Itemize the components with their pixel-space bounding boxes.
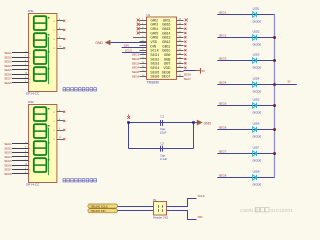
svg-text:d: d: [29, 66, 30, 68]
display DS2 pin seg8 + net label SEG8: [4, 172, 30, 176]
U1 pin 6: [140, 40, 147, 42]
U1 pin 25: [177, 31, 187, 34]
op-amp / IC U1 body TM1640: [147, 17, 177, 79]
svg-text:SCLK: SCLK: [125, 48, 132, 52]
svg-text:SCLK: SCLK: [198, 194, 205, 198]
svg-text:GND: GND: [204, 121, 212, 125]
svg-text:U1: U1: [147, 13, 151, 17]
svg-text:DIN: DIN: [198, 215, 203, 219]
display DS2 designator: [28, 100, 34, 104]
display DS2 common pin 8 with no-ERC: [54, 119, 66, 123]
display DS1 part name DPY4-CC: [26, 92, 40, 96]
display DS2 digit 4: [34, 158, 50, 172]
U1 pin 18: [177, 62, 187, 65]
svg-text:g: g: [29, 78, 30, 80]
display DS1 pin seg6 + net label SEG6: [4, 72, 30, 76]
svg-text:Header 2X2: Header 2X2: [153, 216, 168, 220]
svg-text:LED8: LED8: [253, 169, 260, 173]
svg-text:LED1: LED1: [253, 6, 260, 10]
display DS2 digit 3: [34, 141, 50, 155]
svg-text:b: b: [29, 148, 30, 150]
wire cap loop left vertical: [128, 123, 130, 149]
U1 pin 20: [177, 53, 187, 56]
U1 pin 3 with no-ERC X: [137, 27, 147, 30]
display DS1 digit 1: [34, 16, 50, 30]
U1 pin 21: [177, 49, 187, 52]
svg-text:5V: 5V: [202, 69, 206, 73]
U1 pin 2 with no-ERC X: [137, 23, 147, 26]
svg-text:e: e: [29, 161, 30, 163]
LED5 diode with wire and net label SEG5: [217, 97, 274, 114]
display DS2 pin seg3 + net label SEG3: [4, 151, 30, 155]
svg-text:LED7: LED7: [253, 145, 260, 149]
LED bus vertical wire: [274, 15, 276, 178]
svg-text:DS2: DS2: [28, 100, 34, 104]
svg-text:DIODE: DIODE: [253, 183, 262, 187]
LED8 diode with wire and net label SEG8: [217, 169, 274, 186]
svg-text:LED4: LED4: [253, 76, 260, 80]
svg-text:DIODE: DIODE: [253, 20, 262, 24]
svg-text:C2: C2: [160, 141, 164, 145]
U1 pin 1 with no-ERC X: [137, 19, 147, 22]
capacitor C2: [160, 141, 167, 161]
LED1 diode with wire and net label SEG1: [217, 6, 274, 23]
svg-text:01010001: 01010001: [271, 208, 294, 213]
LED2 diode with wire and net label SEG2: [217, 29, 274, 46]
ground power port GND (left of U1): [95, 40, 146, 45]
svg-text:DIN: DIN: [124, 44, 129, 48]
svg-text:5V: 5V: [288, 80, 291, 84]
junction LED4 on bus: [273, 83, 276, 86]
U1 pin 9 + net label SEG1: [132, 53, 147, 57]
svg-text:h: h: [29, 83, 30, 85]
header P1 body: [154, 202, 167, 216]
watermark CSDN: [240, 208, 293, 214]
junction LED6 on bus: [273, 128, 276, 131]
wire cap loop bottom: [129, 148, 194, 150]
U1 inner pin names: [150, 18, 171, 78]
display DS2 common pin 12 with no-ERC: [54, 137, 66, 141]
net label SEG8 (U1 right): [184, 72, 191, 76]
svg-text:10uF: 10uF: [160, 131, 167, 135]
U1 pin 15: [177, 75, 184, 77]
display DS2 digit 1: [34, 107, 50, 121]
display DS1 colon bar: [47, 37, 49, 84]
svg-text:DIODE: DIODE: [253, 43, 262, 47]
U1 pin 8: [140, 49, 147, 51]
svg-text:DIODE: DIODE: [253, 159, 262, 163]
svg-text:SEG8: SEG8: [4, 172, 12, 176]
LED7 diode with wire and net label SEG7: [217, 145, 274, 162]
display DS1 digit 3: [34, 50, 50, 64]
U1 pin 5 stub: [133, 36, 147, 38]
display DS2 chinese note: [63, 179, 97, 182]
wire SCLK to U1 pin 8: [122, 48, 147, 52]
display DS2 common pin 9 with no-ERC: [54, 128, 66, 132]
svg-text:SEG6: SEG6: [219, 126, 227, 130]
svg-text:TM1640 SCLK: TM1640 SCLK: [90, 205, 108, 209]
svg-text:SEG7: SEG7: [184, 77, 191, 81]
svg-text:DIODE: DIODE: [253, 111, 262, 115]
wire header to SCLK label: [167, 194, 206, 207]
U1 pin 22: [177, 44, 187, 47]
display DS2 pin seg2 + net label SEG2: [4, 146, 30, 150]
port TM1640_DIN: [88, 209, 118, 213]
U1 pin 4 with no-ERC X: [137, 31, 147, 34]
display DS1 common pin 8 with no-ERC: [54, 28, 66, 32]
svg-text:LED3: LED3: [253, 52, 260, 56]
svg-text:c: c: [29, 152, 30, 154]
svg-text:0.1uF: 0.1uF: [160, 157, 167, 161]
svg-text:SEG5: SEG5: [219, 102, 227, 106]
display DS2 digit 2: [34, 124, 50, 138]
junction LED2 on bus: [273, 36, 276, 39]
svg-text:DPY4-CC: DPY4-CC: [26, 92, 40, 96]
svg-text:SEG6: SEG6: [150, 75, 159, 79]
svg-text:SEG2: SEG2: [219, 34, 227, 38]
junction node left: [127, 121, 130, 124]
U1 pin 12 + net label SEG4: [132, 66, 147, 70]
svg-text:SEG1: SEG1: [219, 11, 227, 15]
display DS2 colon bar: [47, 128, 49, 175]
svg-text:SEG8: SEG8: [184, 72, 191, 76]
svg-text:SEG4: SEG4: [219, 81, 227, 85]
display DS1 common pin 12 with no-ERC: [54, 46, 66, 50]
display DS2 pin seg7 + net label SEG7: [4, 168, 30, 172]
port TM1640_SCLK: [88, 204, 118, 209]
svg-text:SEG7: SEG7: [162, 75, 171, 79]
junction node right: [192, 121, 195, 124]
display DS1 pin seg4 + net label SEG4: [4, 64, 30, 68]
U1 pin 13 + net label SEG5: [132, 70, 147, 74]
display DS1 pin seg7 + net label SEG7: [4, 77, 30, 81]
display DS1 pin seg3 + net label SEG3: [4, 60, 30, 64]
U1 pin 19: [177, 57, 187, 60]
display DS2 body: [29, 105, 57, 183]
display DS1 digit 4: [34, 67, 50, 81]
svg-text:CSDN @: CSDN @: [240, 208, 259, 213]
LED6 diode with wire and net label SEG6: [217, 121, 274, 138]
svg-text:SEG6: SEG6: [132, 74, 140, 78]
svg-text:LED2: LED2: [253, 29, 260, 33]
svg-text:GND: GND: [95, 41, 103, 45]
wire DIN to U1 pin 7: [122, 44, 147, 48]
header P1 part name: [153, 216, 168, 220]
svg-text:b: b: [29, 57, 30, 59]
junction LED3 on bus: [273, 59, 276, 62]
svg-text:DIODE: DIODE: [253, 66, 262, 70]
display DS1 chinese note: [63, 88, 97, 91]
display DS1 digit 2: [34, 33, 50, 47]
header P1 pin marks: [159, 205, 163, 211]
U1 pin 16: [177, 70, 184, 72]
display DS1 pin seg8 + net label SEG8: [4, 81, 30, 85]
display DS2 pin seg1 + net label SEG1: [4, 142, 31, 146]
capacitor C1: [160, 115, 167, 135]
U1 pin 14 + net label SEG6: [132, 74, 147, 78]
svg-text:SEG3: SEG3: [219, 57, 227, 61]
svg-text:d: d: [29, 157, 30, 159]
U1 pin 7: [140, 44, 147, 46]
U1 pin 17: [177, 66, 187, 69]
U1 pin 11 + net label SEG3: [132, 61, 147, 65]
header P1 designator: [153, 198, 157, 202]
wire cap loop top: [129, 122, 194, 124]
svg-text:e: e: [29, 70, 30, 72]
display DS2 common pin 6 with no-ERC: [54, 110, 66, 114]
U1 pin 27: [177, 23, 187, 26]
svg-text:SEG8: SEG8: [219, 174, 227, 178]
U1 pin 28: [177, 19, 188, 22]
svg-text:DPY4-CC: DPY4-CC: [26, 183, 40, 187]
junction LED5 on bus: [273, 104, 276, 107]
display DS1 pin seg1 + net label SEG1: [4, 51, 31, 55]
wire port DIN to header P1: [118, 210, 154, 212]
wire bus to 5V stub (LED4 row): [275, 80, 297, 85]
svg-text:TM1640: TM1640: [147, 80, 160, 84]
svg-text:C1: C1: [160, 115, 164, 119]
U1 pin 24: [177, 36, 187, 39]
display DS1 common pin 6 with no-ERC: [54, 19, 66, 23]
display DS1 body: [29, 14, 57, 92]
U1 pin 10 + net label SEG2: [132, 57, 147, 61]
power port 5V on U1 right pin: [184, 68, 206, 74]
svg-text:c: c: [29, 61, 30, 63]
svg-text:DS1: DS1: [28, 9, 34, 13]
svg-text:DIODE: DIODE: [253, 90, 262, 94]
svg-text:g: g: [29, 169, 30, 171]
svg-text:TM1640 DIN: TM1640 DIN: [90, 209, 105, 213]
display DS2 part name DPY4-CC: [26, 183, 40, 187]
svg-text:P1: P1: [153, 198, 157, 202]
display DS1 pin seg5 + net label SEG5: [4, 68, 30, 72]
display DS1 common pin 9 with no-ERC: [54, 37, 66, 41]
LED3 diode with wire and net label SEG3: [217, 52, 274, 69]
U1 designator: [147, 13, 151, 17]
U1 pin 26: [177, 27, 187, 30]
svg-text:LED6: LED6: [253, 121, 260, 125]
svg-text:DIODE: DIODE: [253, 135, 262, 139]
display DS1 designator: [28, 9, 34, 13]
U1 part name TM1640: [147, 80, 160, 84]
display DS2 pin seg5 + net label SEG5: [4, 159, 30, 163]
U1 pin 23: [177, 40, 187, 43]
svg-text:SEG7: SEG7: [219, 150, 227, 154]
wire cap loop right vertical: [193, 123, 195, 149]
LED4 diode with wire and net label SEG4: [217, 76, 274, 93]
no-ERC marker above left node: [127, 114, 130, 118]
net label SEG7 (U1 right): [184, 77, 191, 81]
display DS2 pin seg6 + net label SEG6: [4, 163, 30, 167]
ground power port GND (right of cap loop): [194, 120, 212, 125]
svg-text:LED5: LED5: [253, 97, 260, 101]
svg-text:SEG8: SEG8: [4, 81, 12, 85]
svg-text:h: h: [29, 174, 30, 176]
display DS1 pin seg2 + net label SEG2: [4, 55, 30, 59]
wire port SCLK to header P1: [118, 206, 154, 208]
display DS2 pin seg4 + net label SEG4: [4, 155, 30, 159]
wire header to DIN label: [167, 211, 203, 220]
junction LED7 on bus: [273, 152, 276, 155]
